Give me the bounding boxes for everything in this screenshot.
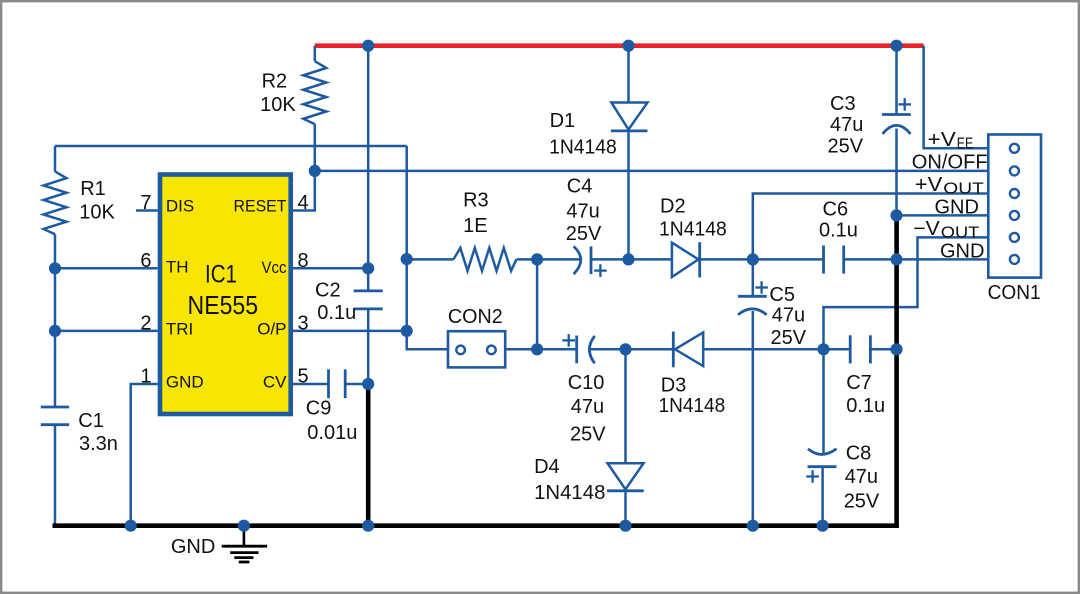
svg-text:47u: 47u: [845, 466, 878, 488]
svg-text:C2: C2: [315, 280, 341, 302]
svg-text:IC1: IC1: [205, 261, 237, 289]
svg-text:0.01u: 0.01u: [307, 422, 357, 444]
svg-text:1N4148: 1N4148: [659, 395, 726, 417]
svg-text:D3: D3: [661, 374, 687, 396]
svg-text:NE555: NE555: [188, 290, 259, 320]
svg-text:C3: C3: [830, 93, 856, 115]
svg-text:O/P: O/P: [257, 320, 286, 339]
svg-text:R2: R2: [262, 71, 288, 93]
svg-text:D2: D2: [660, 196, 686, 218]
svg-text:2: 2: [140, 312, 151, 334]
svg-text:C9: C9: [306, 397, 332, 419]
svg-text:8: 8: [298, 250, 309, 272]
svg-text:GND: GND: [171, 536, 215, 558]
svg-text:1: 1: [140, 366, 151, 388]
svg-text:R1: R1: [80, 178, 106, 200]
svg-text:7: 7: [140, 192, 151, 214]
svg-text:25V: 25V: [566, 223, 602, 245]
svg-text:47u: 47u: [830, 114, 863, 136]
svg-text:10K: 10K: [79, 201, 115, 223]
svg-text:GND: GND: [935, 197, 979, 219]
svg-text:3.3n: 3.3n: [79, 433, 118, 455]
svg-text:Vcc: Vcc: [262, 258, 287, 277]
svg-text:25V: 25V: [771, 327, 807, 349]
svg-text:47u: 47u: [566, 201, 599, 223]
svg-text:47u: 47u: [571, 396, 604, 418]
svg-text:1E: 1E: [463, 215, 487, 237]
svg-text:1N4148: 1N4148: [534, 482, 605, 504]
svg-text:C8: C8: [846, 443, 872, 465]
svg-text:47u: 47u: [772, 304, 805, 326]
svg-text:0.1u: 0.1u: [819, 219, 858, 241]
svg-text:CON1: CON1: [988, 282, 1041, 304]
svg-text:6: 6: [140, 250, 151, 272]
svg-text:CV: CV: [263, 373, 287, 392]
svg-text:CON2: CON2: [448, 306, 503, 328]
svg-text:+V: +V: [915, 174, 943, 196]
svg-text:0.1u: 0.1u: [846, 395, 885, 417]
svg-text:4: 4: [298, 192, 309, 214]
svg-text:25V: 25V: [570, 424, 606, 446]
svg-text:D1: D1: [550, 110, 576, 132]
svg-text:3: 3: [298, 312, 309, 334]
svg-text:−V: −V: [913, 218, 940, 240]
svg-text:C7: C7: [846, 372, 872, 394]
svg-text:C10: C10: [568, 372, 605, 394]
svg-text:C1: C1: [78, 410, 104, 432]
svg-text:1N4148: 1N4148: [549, 137, 617, 159]
svg-text:D4: D4: [534, 456, 560, 478]
svg-text:5: 5: [298, 366, 309, 388]
svg-text:+V: +V: [928, 129, 957, 151]
svg-text:DIS: DIS: [166, 197, 194, 216]
svg-text:25V: 25V: [828, 136, 864, 158]
svg-text:TH: TH: [166, 257, 189, 276]
svg-text:R3: R3: [463, 189, 489, 211]
svg-text:TRI: TRI: [166, 320, 193, 339]
svg-text:OUT: OUT: [941, 224, 980, 241]
svg-text:C6: C6: [823, 198, 849, 220]
svg-text:10K: 10K: [260, 94, 296, 116]
svg-text:25V: 25V: [844, 491, 880, 513]
svg-text:C4: C4: [567, 175, 593, 197]
svg-text:RESET: RESET: [234, 197, 287, 216]
svg-text:1N4148: 1N4148: [659, 218, 727, 240]
svg-text:C5: C5: [769, 284, 795, 306]
svg-text:EE: EE: [957, 136, 974, 153]
svg-text:GND: GND: [940, 241, 984, 263]
svg-text:OUT: OUT: [943, 180, 984, 197]
svg-text:0.1u: 0.1u: [317, 302, 356, 324]
svg-text:GND: GND: [166, 373, 204, 392]
svg-text:ON/OFF: ON/OFF: [912, 152, 988, 174]
